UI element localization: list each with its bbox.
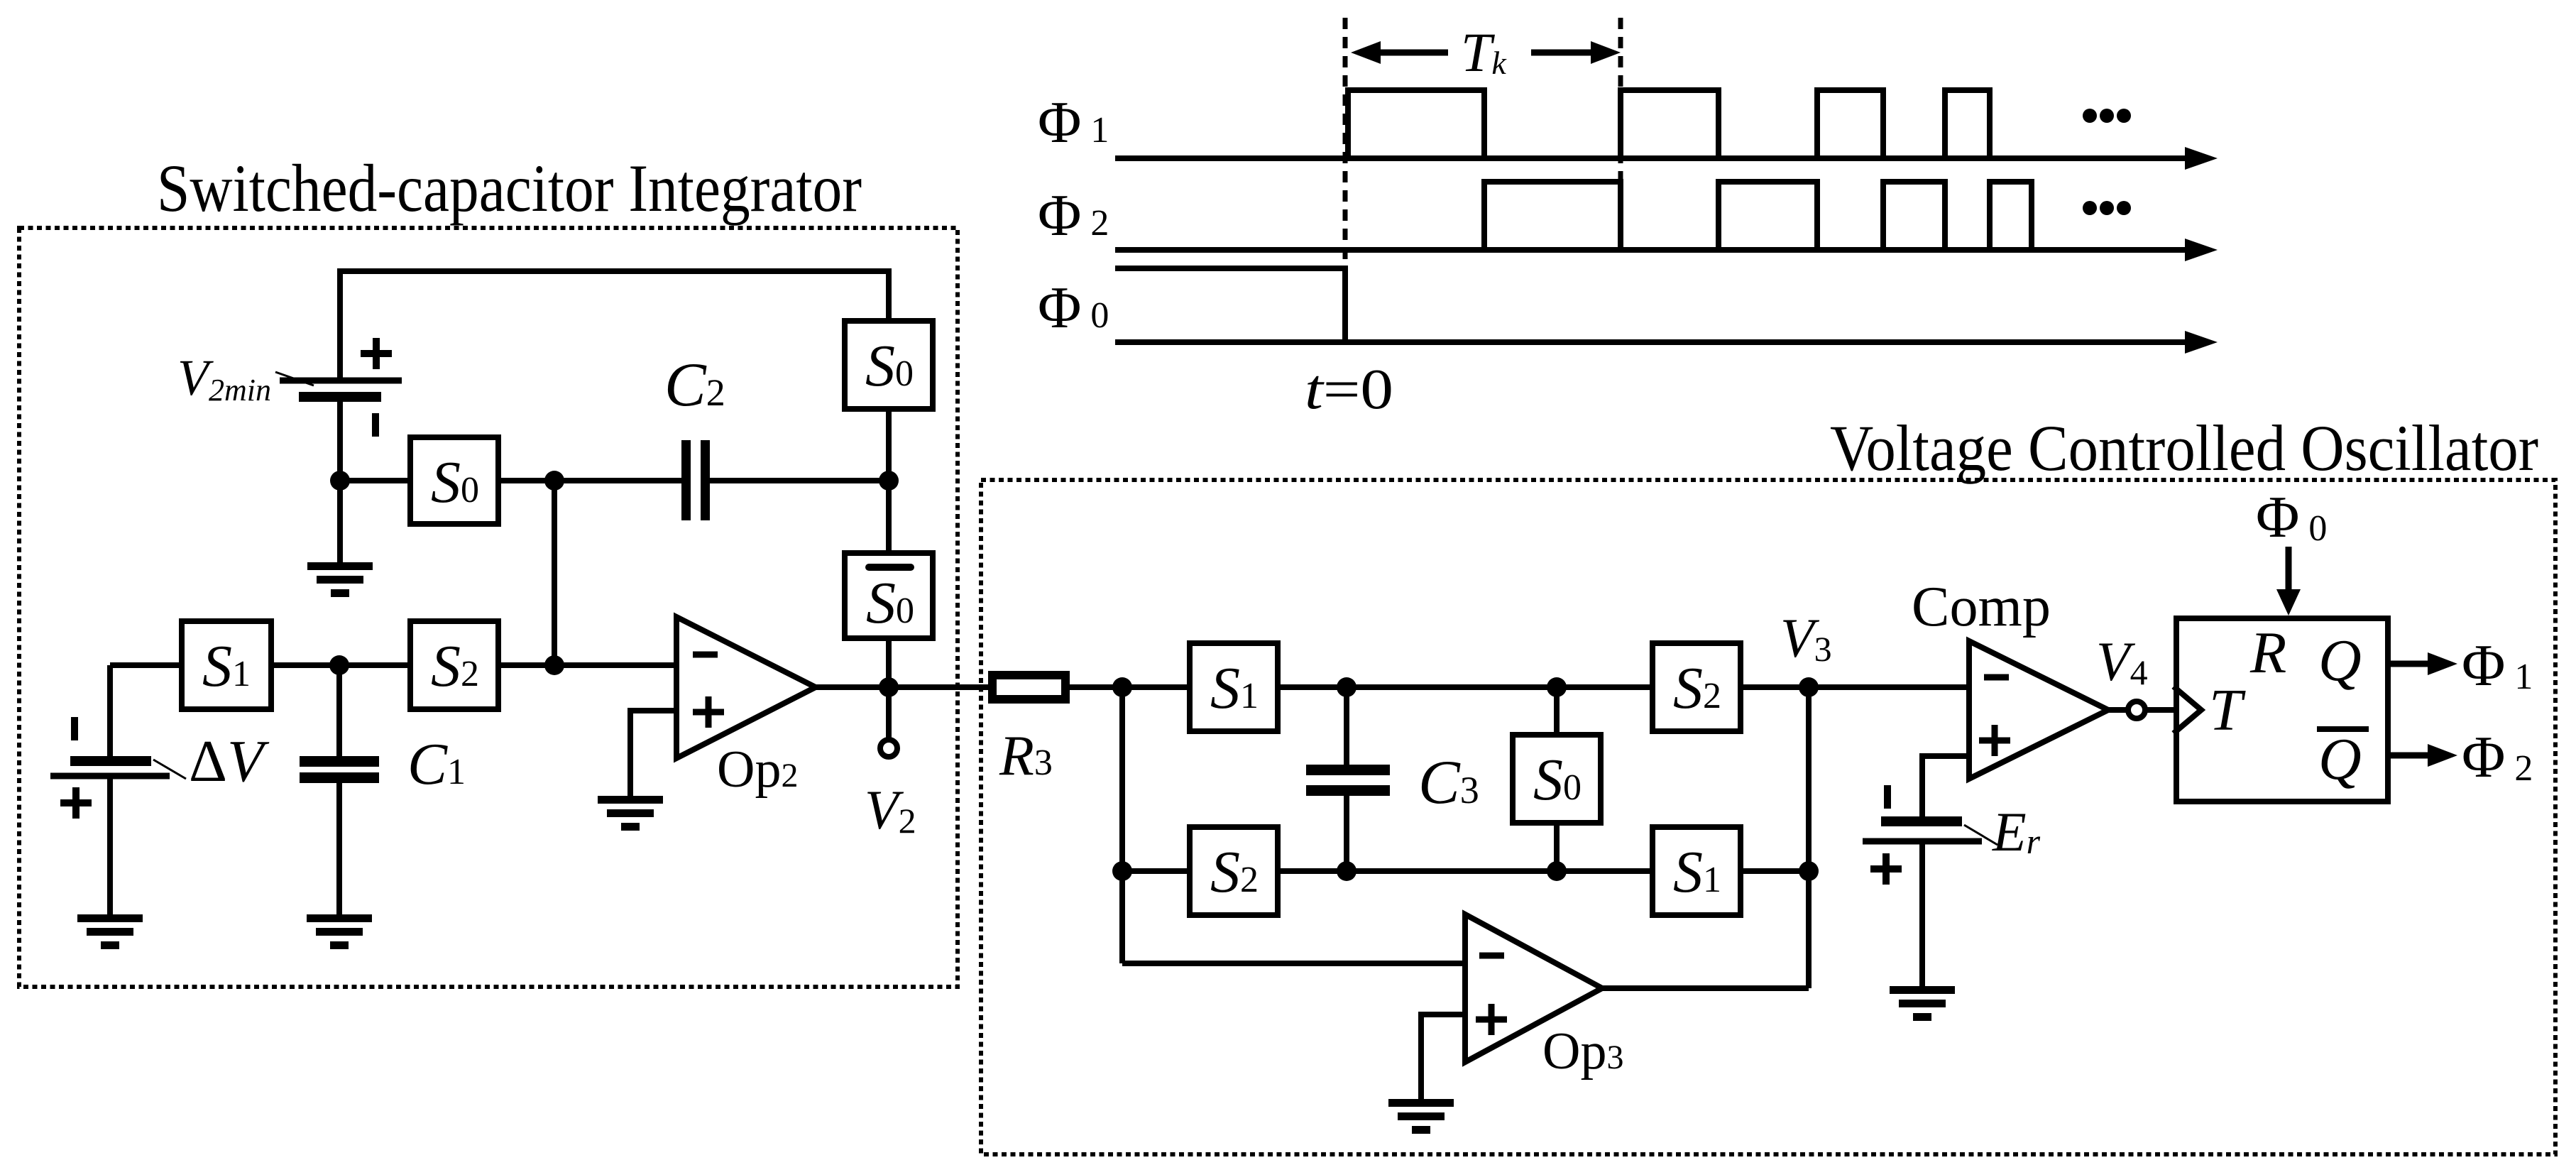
- switch S2 (VCO top right): [1653, 643, 1741, 731]
- Phi2 pulse train: [1484, 182, 2032, 250]
- node L (V3 column, bottom row): [1799, 861, 1819, 881]
- battery Er: [1884, 785, 1891, 809]
- wire Op3 output: [1602, 985, 1809, 991]
- label Q-bar: [2317, 726, 2369, 732]
- wire S0 to C2 node: [501, 478, 681, 483]
- node A (left of S0 mid): [330, 471, 350, 491]
- dashed marker at end of Tk: [1618, 18, 1623, 181]
- wire S1 to S2 (VCO top row): [1281, 684, 1653, 690]
- ground below V2min node: [337, 481, 343, 562]
- Tk left arrow: [1379, 50, 1448, 56]
- switch S1 (integrator): [182, 621, 271, 709]
- svg-text:ΔV: ΔV: [189, 728, 270, 794]
- wire R3 to S1: [1070, 684, 1190, 690]
- node E (right of S2): [544, 655, 564, 675]
- wire S2 to op-amp minus: [501, 662, 676, 668]
- switch S0-bar: [845, 553, 933, 638]
- switch S2 (integrator): [410, 621, 498, 709]
- svg-text:Q: Q: [2318, 726, 2362, 792]
- op-amp Op3: [1465, 914, 1602, 1062]
- dashed marker at t=0: [1343, 18, 1348, 342]
- switch S1 (VCO bottom right): [1653, 827, 1741, 915]
- ground under C1: [307, 919, 372, 946]
- wire bottom row middle: [1281, 868, 1653, 874]
- Phi0 high level and falling edge: [1115, 268, 1345, 342]
- svg-text:Switched-capacitor Integrator: Switched-capacitor Integrator: [157, 151, 862, 226]
- node K (below S0): [1547, 861, 1567, 881]
- Phi0 axis with arrow: [1115, 339, 2188, 345]
- wire C2 to right node: [710, 478, 889, 483]
- svg-text:Q: Q: [2318, 628, 2362, 694]
- svg-text:Comp: Comp: [1912, 576, 2051, 638]
- Phi1 pulse train: [1348, 90, 1990, 158]
- svg-text:R: R: [2249, 620, 2286, 686]
- Phi1 axis with arrow: [1115, 155, 2188, 161]
- clock wedge: [2174, 687, 2201, 733]
- wire op2 plus to ground: [630, 711, 676, 796]
- wire V3 column down to Op3 output: [1806, 687, 1812, 988]
- op-amp Op2: [676, 617, 816, 758]
- switch S0 (integrator input): [410, 437, 498, 524]
- node V2: [879, 677, 899, 697]
- svg-text:T: T: [2209, 677, 2246, 743]
- switch S0 (VCO): [1554, 687, 1560, 732]
- comparator Comp: [1969, 641, 2108, 779]
- node I (left, bottom row): [1112, 861, 1132, 881]
- wire Q output arrow: [2391, 661, 2429, 667]
- ground at Op2 plus: [598, 800, 663, 827]
- Phi2 axis with arrow: [1115, 247, 2188, 253]
- wire node B down to S2 row: [552, 481, 557, 665]
- wire: top feedback from V2min battery top to S0 (top): [340, 271, 889, 378]
- wire row C: DeltaV to S1: [110, 662, 182, 668]
- wire row E left: [1122, 868, 1190, 874]
- T flip-flop box: [2176, 618, 2388, 802]
- dots after Phi1: [2083, 109, 2097, 123]
- wire node F down to Op3 minus: [1119, 687, 1125, 963]
- battery DeltaV: [107, 665, 113, 757]
- wire circle to T flip-flop: [2145, 707, 2174, 713]
- wire Q-bar output arrow: [2391, 753, 2429, 759]
- node V3: [1799, 677, 1819, 697]
- battery V2min: [275, 338, 402, 481]
- dotted box: Voltage Controlled Oscillator: [981, 480, 2555, 1154]
- wire Op3 plus to ground: [1421, 1014, 1465, 1099]
- wire S2 to V3 node: [1743, 684, 1969, 690]
- ground under Er: [1890, 990, 1955, 1017]
- terminal V4 (open circle): [2128, 701, 2145, 718]
- ground at Op3 plus: [1388, 1103, 1454, 1130]
- wire S1 to V3 column: [1743, 868, 1809, 874]
- dots after Phi2: [2083, 201, 2097, 215]
- node B (left of C2): [544, 471, 564, 491]
- switch S2 (VCO bottom left): [1190, 827, 1278, 915]
- node C (right of C2): [879, 471, 899, 491]
- switch S1 (VCO top): [1190, 643, 1278, 731]
- node H (above S0): [1547, 677, 1567, 697]
- wire row B: node to S0 mid: [340, 478, 410, 483]
- svg-text:Voltage Controlled Oscillator: Voltage Controlled Oscillator: [1830, 412, 2538, 484]
- ground under DeltaV: [77, 919, 143, 946]
- svg-text:t=0: t=0: [1305, 359, 1393, 421]
- resistor R3: [992, 675, 1065, 699]
- node F (after R3): [1112, 677, 1132, 697]
- wire to Op3 minus input: [1122, 961, 1465, 966]
- capacitor C3: [1344, 687, 1349, 765]
- wire S1 to S2: [274, 662, 410, 668]
- wire op2 output to R3: [816, 684, 988, 690]
- switch S0 (top right): [886, 412, 892, 550]
- terminal V2: [886, 687, 892, 740]
- wire Comp plus input: [1922, 756, 1969, 817]
- node G (above C3): [1337, 677, 1356, 697]
- node D (between S1 and S2): [329, 655, 349, 675]
- capacitor C1: [336, 665, 342, 756]
- arrow Phi0 into flip-flop: [2286, 547, 2292, 591]
- capacitor C2: [686, 440, 706, 520]
- wire comp output: [2108, 707, 2128, 713]
- Tk right arrow: [1531, 50, 1592, 56]
- dotted box: Switched-capacitor Integrator: [19, 228, 958, 987]
- node J (below C3): [1337, 861, 1356, 881]
